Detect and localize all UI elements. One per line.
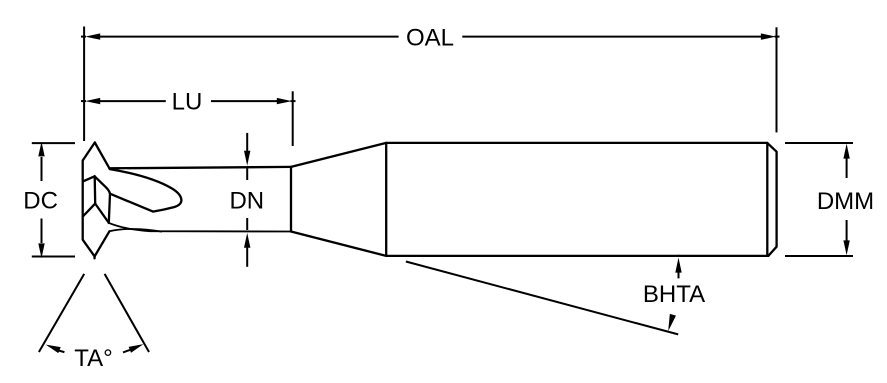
svg-text:OAL: OAL [406,25,454,52]
svg-text:DMM: DMM [817,188,874,215]
svg-text:LU: LU [172,89,203,116]
svg-text:BHTA: BHTA [643,281,705,308]
svg-text:TA°: TA° [74,345,112,372]
svg-text:DC: DC [23,188,58,215]
svg-text:DN: DN [229,188,264,215]
